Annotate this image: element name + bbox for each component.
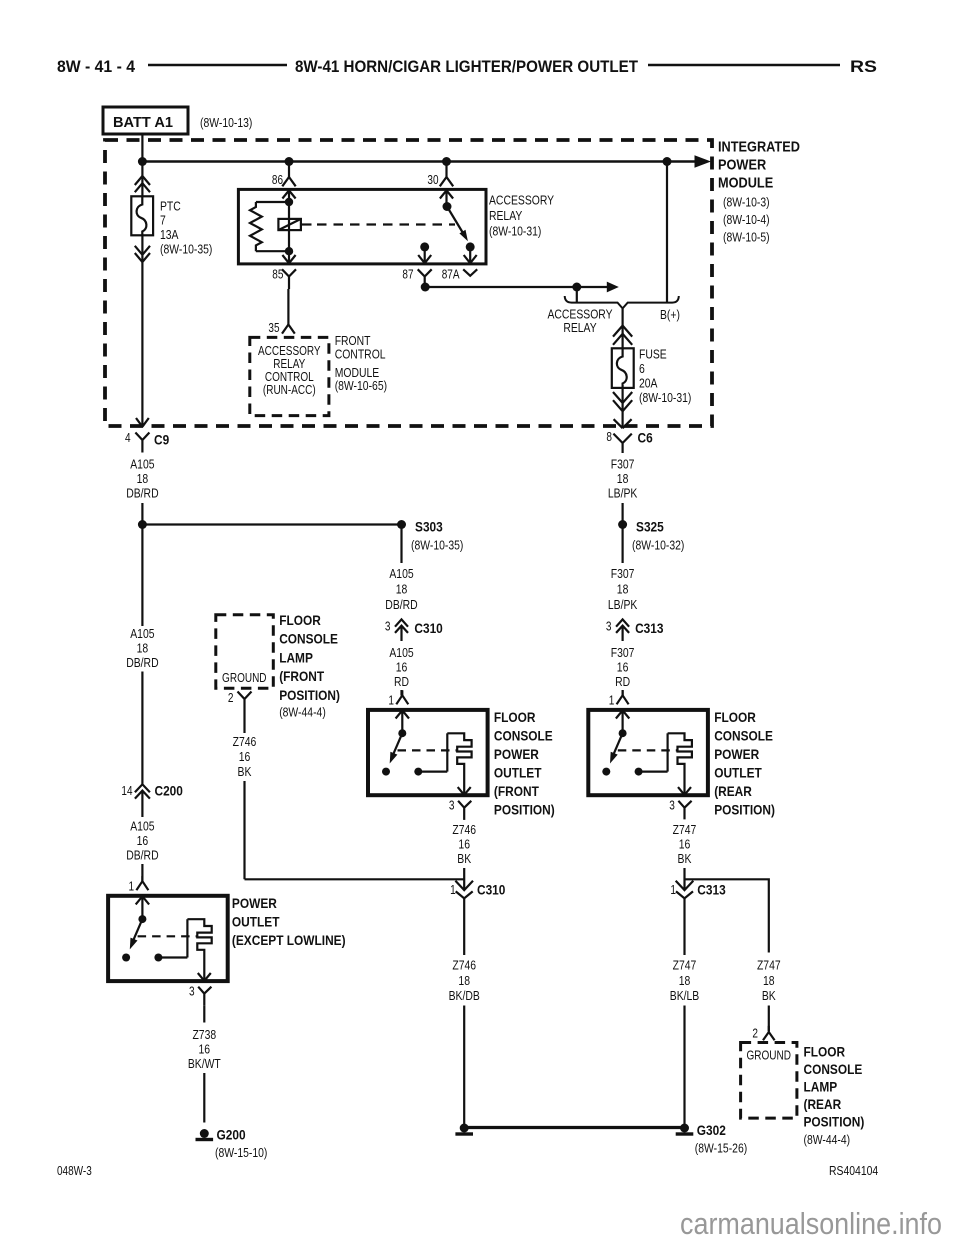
junction node at PTC branch	[138, 157, 147, 166]
svg-text:35: 35	[268, 321, 279, 335]
svg-text:F307: F307	[611, 645, 635, 660]
svg-text:(REAR: (REAR	[714, 783, 752, 799]
svg-text:CONTROL: CONTROL	[265, 370, 314, 384]
svg-text:(8W-10-32): (8W-10-32)	[632, 538, 684, 553]
clip double chevron below PTC	[135, 246, 150, 262]
svg-text:BK/LB: BK/LB	[670, 988, 700, 1003]
svg-text:OUTLET: OUTLET	[232, 914, 280, 930]
junction node at pin 30	[442, 157, 451, 166]
wire rail to PTC	[141, 162, 143, 197]
accessory relay box U1	[238, 189, 486, 264]
svg-text:8W-41 HORN/CIGAR LIGHTER/POWER: 8W-41 HORN/CIGAR LIGHTER/POWER OUTLET	[295, 57, 639, 76]
svg-text:Z746: Z746	[233, 734, 257, 749]
svg-text:Z738: Z738	[192, 1027, 216, 1042]
svg-text:A105: A105	[130, 626, 154, 641]
in-line connector C200	[135, 784, 150, 817]
svg-text:Z747: Z747	[757, 958, 781, 973]
svg-text:C6: C6	[638, 430, 653, 446]
svg-text:20A: 20A	[639, 376, 658, 391]
bus rail wire	[142, 160, 696, 163]
svg-text:POWER: POWER	[718, 157, 766, 174]
in-line connector C310	[395, 619, 408, 641]
clip double chevron above PTC	[135, 176, 150, 192]
floor console lamp (rear position) ground box	[741, 1043, 797, 1119]
pin 30 male arrow inside relay	[440, 190, 453, 206]
svg-text:(REAR: (REAR	[804, 1096, 842, 1112]
svg-text:FUSE: FUSE	[639, 346, 667, 361]
ground G302	[680, 1124, 689, 1133]
svg-text:16: 16	[617, 660, 629, 675]
wire pin3 down	[463, 818, 465, 821]
svg-text:DB/RD: DB/RD	[126, 848, 158, 863]
svg-text:8W - 41 - 4: 8W - 41 - 4	[57, 57, 135, 76]
pin 85 female half below box	[282, 269, 296, 289]
svg-text:CONSOLE: CONSOLE	[804, 1061, 863, 1077]
svg-text:1: 1	[450, 883, 456, 897]
wire to C310 lower	[463, 868, 465, 890]
svg-text:F307: F307	[611, 457, 635, 472]
svg-text:BK/DB: BK/DB	[449, 988, 480, 1003]
svg-text:A105: A105	[130, 457, 154, 472]
wire PTC down to C9	[141, 235, 143, 425]
svg-text:C310: C310	[477, 882, 506, 898]
svg-text:GROUND: GROUND	[746, 1049, 791, 1063]
svg-text:18: 18	[679, 973, 691, 988]
svg-text:(FRONT: (FRONT	[279, 668, 324, 684]
svg-text:PTC: PTC	[160, 198, 181, 213]
accessory relay control dashed box (front control module)	[250, 337, 329, 415]
floor console lamp (front position) ground box	[216, 615, 273, 689]
svg-text:BK: BK	[457, 851, 471, 866]
switch pivot node	[443, 202, 452, 211]
svg-text:85: 85	[272, 268, 283, 282]
ground G200	[200, 1129, 209, 1138]
svg-text:RS404104: RS404104	[829, 1163, 878, 1178]
svg-text:(8W-10-3): (8W-10-3)	[723, 195, 770, 210]
B(+) wire from rail	[666, 162, 668, 303]
svg-text:3: 3	[606, 620, 612, 634]
svg-text:048W-3: 048W-3	[57, 1164, 92, 1178]
stem from tee down to bracket	[576, 287, 578, 303]
svg-text:RELAY: RELAY	[563, 320, 597, 335]
svg-text:DB/RD: DB/RD	[385, 597, 417, 612]
svg-text:LB/PK: LB/PK	[608, 486, 638, 501]
ground bus bar to G302	[464, 1126, 684, 1129]
wire C200 to power outlet	[141, 864, 143, 881]
pin 87A open female below box	[463, 269, 477, 276]
ground branch wire from front lamp	[245, 878, 465, 880]
svg-text:(8W-15-26): (8W-15-26)	[695, 1140, 747, 1155]
svg-text:87: 87	[402, 268, 413, 282]
svg-text:OUTLET: OUTLET	[714, 764, 762, 780]
svg-text:(8W-44-4): (8W-44-4)	[279, 705, 326, 720]
svg-text:DB/RD: DB/RD	[126, 655, 158, 670]
svg-text:(8W-10-65): (8W-10-65)	[335, 378, 387, 393]
svg-text:B(+): B(+)	[660, 307, 680, 322]
junction node at B(+) branch	[663, 157, 672, 166]
tee node to accessory relay terminal	[572, 283, 581, 292]
svg-text:POWER: POWER	[714, 746, 759, 762]
svg-text:(8W-10-5): (8W-10-5)	[723, 230, 770, 245]
svg-text:G302: G302	[697, 1122, 726, 1138]
svg-text:16: 16	[458, 837, 470, 852]
svg-text:4: 4	[125, 431, 131, 445]
PTC fuse element	[131, 196, 153, 235]
svg-text:INTEGRATED: INTEGRATED	[718, 139, 800, 156]
pin 87 female half below box	[418, 269, 432, 287]
svg-text:G200: G200	[217, 1127, 246, 1143]
svg-text:7: 7	[160, 213, 166, 228]
wire to C200	[141, 672, 143, 785]
svg-text:16: 16	[239, 749, 251, 764]
svg-text:BK: BK	[238, 764, 252, 779]
svg-text:C313: C313	[635, 620, 664, 636]
svg-text:LAMP: LAMP	[279, 649, 313, 665]
svg-text:FLOOR: FLOOR	[494, 709, 536, 725]
wire C6 to splice S325	[621, 503, 623, 563]
wire bracket to fuse	[621, 309, 623, 349]
svg-text:6: 6	[639, 361, 645, 376]
svg-text:16: 16	[137, 833, 149, 848]
wire to rear console outlet	[621, 690, 623, 696]
connector C9 male arrow at IPM edge	[136, 418, 149, 427]
svg-text:3: 3	[385, 620, 391, 634]
connector C6 male arrow at IPM edge	[614, 419, 632, 428]
svg-text:RD: RD	[394, 674, 409, 689]
pin 87A male arrow to box edge	[464, 247, 477, 263]
wire pin 85 to FCM pin 35	[287, 289, 289, 325]
header rule left	[148, 64, 287, 67]
node pin86 to resistor top	[285, 198, 293, 206]
rear lamp pin 2 female connector	[763, 1026, 775, 1040]
fuse 6 element	[612, 348, 634, 388]
switch arm Q	[447, 207, 463, 234]
wire fuse down to C6	[621, 388, 623, 427]
junction node at splice branch	[138, 520, 147, 529]
relay coil	[278, 219, 301, 230]
rear lamp ground branch wire	[685, 879, 769, 952]
pin 86 stem from rail	[288, 162, 290, 178]
connector C6 female half	[613, 434, 631, 453]
svg-text:30: 30	[427, 173, 438, 187]
svg-text:POSITION): POSITION)	[279, 687, 340, 703]
svg-text:18: 18	[137, 641, 149, 656]
svg-text:LB/PK: LB/PK	[608, 597, 638, 612]
svg-text:14: 14	[121, 784, 132, 798]
svg-text:FLOOR: FLOOR	[714, 709, 756, 725]
svg-text:Z747: Z747	[673, 822, 697, 837]
connector C9 female half	[135, 433, 149, 453]
svg-text:(8W-10-4): (8W-10-4)	[723, 212, 770, 227]
floor console power outlet (rear position)	[588, 690, 708, 819]
svg-text:(8W-10-35): (8W-10-35)	[411, 538, 463, 553]
svg-text:carmanualsonline.info: carmanualsonline.info	[680, 1206, 942, 1241]
integrated power module dashed boundary	[105, 140, 712, 426]
svg-text:S303: S303	[415, 519, 443, 535]
header rule right	[648, 64, 840, 67]
pin 87A node	[466, 242, 475, 251]
wire to C313 lower	[683, 868, 685, 890]
svg-text:(8W-10-13): (8W-10-13)	[200, 115, 252, 130]
svg-text:RELAY: RELAY	[489, 208, 523, 223]
svg-text:A105: A105	[389, 566, 413, 581]
svg-text:(FRONT: (FRONT	[494, 783, 539, 799]
pin 85 male arrow to box edge	[282, 251, 295, 263]
wire splice down	[141, 525, 143, 627]
clip double chevron above fuse	[613, 326, 632, 345]
svg-text:8: 8	[606, 430, 612, 444]
svg-text:ACCESSORY: ACCESSORY	[258, 344, 321, 358]
svg-text:13A: 13A	[160, 227, 179, 242]
svg-text:Z747: Z747	[673, 958, 697, 973]
relay coil resistor	[250, 202, 289, 251]
pin 87 male arrow to box edge	[418, 247, 431, 263]
svg-text:A105: A105	[130, 819, 154, 834]
svg-text:C200: C200	[155, 783, 184, 799]
pin 86 male arrow inside relay	[282, 190, 295, 251]
svg-text:LAMP: LAMP	[804, 1079, 838, 1095]
svg-text:(8W-10-31): (8W-10-31)	[639, 390, 691, 405]
splice wire to S303	[142, 523, 401, 525]
svg-text:1: 1	[670, 883, 676, 897]
battery feed box BATT A1	[103, 107, 188, 134]
wire to ground G200	[203, 1005, 205, 1122]
wire C313 to ground G302	[683, 910, 685, 1128]
lamp pin 2 female connector	[238, 692, 252, 734]
svg-text:S325: S325	[636, 519, 664, 535]
svg-text:(8W-10-35): (8W-10-35)	[160, 242, 212, 257]
svg-text:16: 16	[199, 1042, 211, 1057]
svg-text:OUTLET: OUTLET	[494, 764, 542, 780]
svg-text:Z746: Z746	[452, 958, 476, 973]
wire from BATT A1 down	[141, 134, 143, 162]
svg-text:C310: C310	[414, 620, 443, 636]
svg-text:(8W-15-10): (8W-15-10)	[215, 1145, 267, 1160]
svg-text:18: 18	[617, 471, 629, 486]
svg-text:(8W-10-31): (8W-10-31)	[489, 224, 541, 239]
svg-text:C9: C9	[154, 432, 169, 448]
svg-text:2: 2	[228, 691, 234, 705]
svg-text:CONSOLE: CONSOLE	[494, 727, 553, 743]
svg-text:CONTROL: CONTROL	[335, 347, 386, 362]
svg-text:86: 86	[272, 173, 283, 187]
wire C9 to splice	[141, 503, 143, 525]
svg-text:C313: C313	[697, 882, 726, 898]
corner node	[421, 283, 430, 292]
power outlet (except lowline)	[108, 876, 228, 1005]
clip double chevron below fuse	[613, 392, 632, 411]
svg-text:BK/WT: BK/WT	[188, 1056, 221, 1071]
wire to front console outlet	[400, 690, 402, 696]
svg-text:A105: A105	[389, 645, 413, 660]
svg-text:POWER: POWER	[232, 895, 277, 911]
pin 86 female half	[282, 177, 295, 186]
svg-text:BATT A1: BATT A1	[113, 114, 173, 131]
svg-text:RD: RD	[615, 674, 630, 689]
splice S325	[618, 520, 627, 529]
in-line connector C313	[616, 619, 629, 641]
in-line connector C313 lower	[676, 881, 694, 910]
svg-text:POSITION): POSITION)	[714, 801, 775, 817]
svg-text:18: 18	[617, 582, 629, 597]
wire front lamp ground to C310 branch	[243, 781, 245, 879]
ground symbol left of bar	[460, 1124, 469, 1133]
wire to rear lamp pin 2	[768, 1006, 770, 1032]
relay linkage dashed	[301, 223, 312, 225]
svg-text:F307: F307	[611, 566, 635, 581]
svg-text:RELAY: RELAY	[273, 357, 306, 371]
svg-text:(8W-44-4): (8W-44-4)	[804, 1132, 851, 1147]
svg-text:16: 16	[396, 660, 408, 675]
pin 30 female half	[440, 177, 453, 186]
pin 87 node	[420, 242, 429, 251]
svg-text:2: 2	[752, 1027, 758, 1041]
svg-text:FLOOR: FLOOR	[804, 1043, 846, 1059]
in-line connector C310 lower	[455, 881, 473, 910]
rail arrowhead into IPM edge	[695, 155, 712, 167]
junction node at pin 86	[285, 157, 294, 166]
svg-text:BK: BK	[762, 988, 776, 1003]
pin 30 stem from rail	[445, 162, 447, 178]
terminal group bracket	[565, 296, 679, 308]
svg-text:DB/RD: DB/RD	[126, 486, 158, 501]
svg-text:CONSOLE: CONSOLE	[279, 631, 338, 647]
svg-text:18: 18	[458, 973, 470, 988]
svg-text:BK: BK	[678, 851, 692, 866]
svg-text:POSITION): POSITION)	[804, 1114, 865, 1130]
svg-text:Z746: Z746	[452, 822, 476, 837]
svg-text:16: 16	[679, 837, 691, 852]
svg-text:(EXCEPT LOWLINE): (EXCEPT LOWLINE)	[232, 932, 346, 948]
svg-text:RS: RS	[850, 57, 877, 76]
svg-text:ACCESSORY: ACCESSORY	[489, 193, 554, 208]
floor console power outlet (front position)	[368, 690, 488, 819]
svg-text:18: 18	[396, 582, 408, 597]
svg-text:18: 18	[137, 471, 149, 486]
wire pin 87 down and right	[425, 286, 608, 288]
svg-text:POWER: POWER	[494, 746, 539, 762]
svg-text:18: 18	[763, 973, 775, 988]
wire arrow toward fuse feed	[607, 282, 619, 293]
wire S303 down	[400, 525, 402, 564]
svg-text:MODULE: MODULE	[718, 175, 773, 192]
svg-text:POSITION): POSITION)	[494, 801, 555, 817]
pin 35 female half at FCM	[282, 325, 295, 334]
svg-text:87A: 87A	[442, 268, 460, 282]
svg-text:(RUN-ACC): (RUN-ACC)	[263, 383, 316, 397]
splice S303	[397, 520, 406, 529]
svg-text:GROUND: GROUND	[222, 671, 267, 685]
svg-text:FLOOR: FLOOR	[279, 612, 321, 628]
wire C310 to ground G302	[463, 910, 465, 1128]
node resistor bottom	[285, 247, 293, 255]
svg-text:CONSOLE: CONSOLE	[714, 727, 773, 743]
